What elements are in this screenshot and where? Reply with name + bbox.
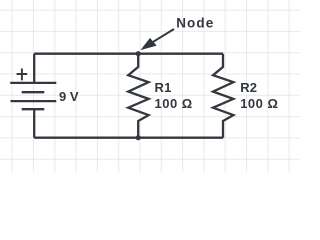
- arrow head: [140, 38, 156, 50]
- node "Node" junction dot (top): [136, 51, 141, 56]
- arrow shaft to node: [153, 29, 174, 42]
- resistor R2: [213, 54, 233, 138]
- svg-text:Node: Node: [176, 15, 214, 30]
- wire left drop to battery: [33, 54, 35, 83]
- svg-text:100 Ω: 100 Ω: [240, 96, 278, 111]
- svg-text:R1: R1: [155, 80, 172, 95]
- junction dot (bottom node): [136, 135, 141, 140]
- resistor R1: [128, 54, 148, 138]
- wire bottom rail: [34, 137, 223, 139]
- svg-text:R2: R2: [240, 80, 257, 95]
- svg-text:9 V: 9 V: [59, 89, 79, 104]
- svg-text:100 Ω: 100 Ω: [155, 96, 193, 111]
- battery V1 (9 V) plates: [10, 82, 56, 84]
- wire top rail: [34, 53, 223, 55]
- plus sign of battery: [17, 69, 28, 81]
- wire battery bottom lead: [33, 109, 35, 138]
